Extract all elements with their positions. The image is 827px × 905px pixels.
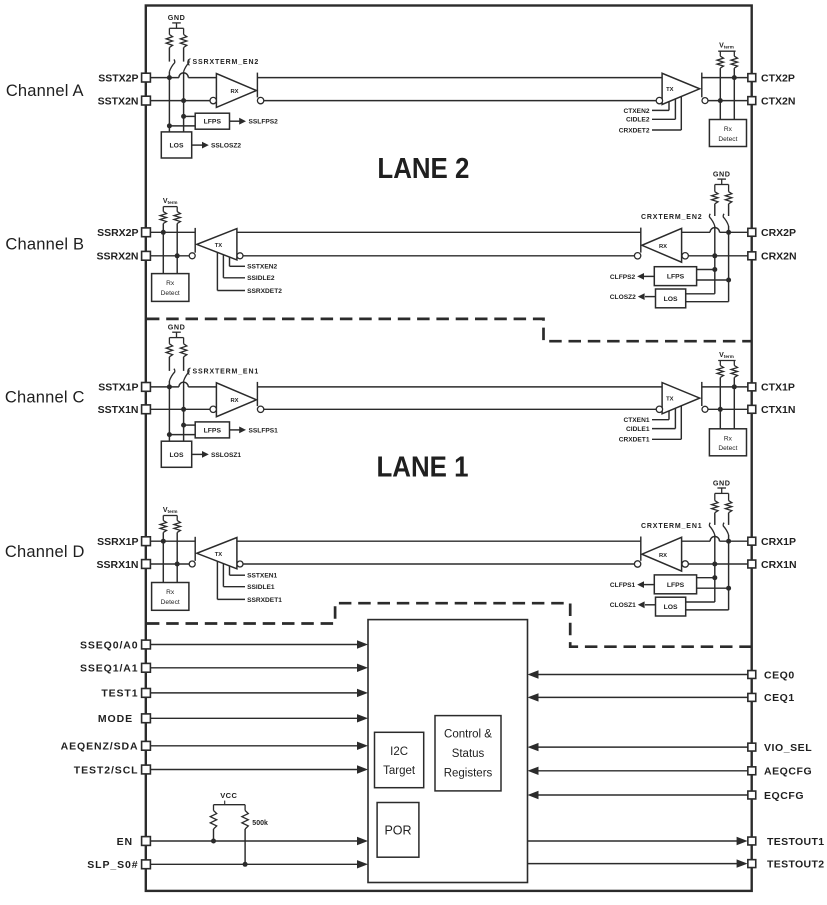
label Channel C bbox=[5, 389, 85, 407]
pin EN bbox=[117, 836, 151, 848]
control label SSRXDET1 bbox=[217, 561, 282, 604]
resistor 500k VCC-SLP_S0# bbox=[242, 805, 248, 865]
svg-text:Detect: Detect bbox=[718, 445, 737, 452]
wire SSTX1N to RX input bubble bbox=[150, 408, 210, 410]
pullup resistor left SSRX2 bbox=[160, 207, 166, 233]
svg-text:CRXTERM_EN2: CRXTERM_EN2 bbox=[641, 214, 702, 221]
svg-text:CLFPS2: CLFPS2 bbox=[610, 274, 636, 281]
RX output bubble ch CRX2 bbox=[634, 253, 640, 259]
TX output stub ch SSRX2 bbox=[194, 228, 196, 253]
RX output stub ch2 bbox=[256, 73, 258, 98]
pin SSTX2P bbox=[98, 72, 150, 84]
svg-text:SSEQ0/A0: SSEQ0/A0 bbox=[80, 639, 139, 651]
input wire MODE bbox=[150, 714, 368, 722]
signal arrow SSLOSZ2 bbox=[192, 142, 242, 150]
pin SSEQ0/A0 bbox=[80, 639, 150, 651]
RX output bubble ch1 bbox=[257, 406, 263, 412]
wire left branch down to LOS bbox=[168, 78, 170, 132]
svg-text:RX: RX bbox=[230, 398, 238, 404]
control label SSTXEN1 bbox=[230, 566, 278, 580]
wire branches to Rx Detect bbox=[163, 232, 177, 273]
svg-text:CLOSZ1: CLOSZ1 bbox=[610, 602, 636, 609]
svg-text:SSTX1P: SSTX1P bbox=[98, 382, 138, 394]
dashed lane separator upper bbox=[147, 319, 751, 341]
input wire AEQENZ/SDA bbox=[150, 742, 368, 750]
POR block bbox=[377, 803, 419, 858]
pin AEQENZ/SDA bbox=[61, 741, 151, 753]
junction dot CRX2P / right branch bbox=[726, 230, 731, 235]
svg-text:Registers: Registers bbox=[444, 767, 493, 779]
control block U1 outline bbox=[368, 620, 528, 883]
LFPS block ch CRX2 bbox=[654, 267, 728, 286]
svg-text:GND: GND bbox=[713, 169, 731, 178]
svg-text:Rx: Rx bbox=[724, 435, 733, 442]
control label SSIDLE1 bbox=[223, 564, 275, 592]
pullup resistor right SSRX1 bbox=[174, 516, 180, 565]
svg-text:Channel B: Channel B bbox=[5, 235, 84, 253]
junction dot right branch / LFPS tap bbox=[726, 278, 731, 283]
pin SSRX1N bbox=[96, 559, 150, 571]
wire CRX1N to RX input bubble bbox=[688, 563, 747, 565]
pullup resistor right CTX2 bbox=[731, 51, 737, 77]
signal arrow SSLFPS1 bbox=[230, 427, 279, 435]
op-amp TX lane 1 bbox=[662, 383, 700, 414]
termination resistor right CRX2 bbox=[725, 185, 731, 217]
junction dot right branch / LFPS tap bbox=[181, 114, 186, 119]
svg-text:Detect: Detect bbox=[161, 290, 180, 297]
junction dot branch right / CTX2P bbox=[732, 75, 737, 80]
label CRXTERM_EN1 bbox=[641, 523, 702, 530]
label 500k bbox=[252, 820, 268, 827]
TX output bubble ch SSRX1 bbox=[189, 561, 195, 567]
svg-text:SSEQ1/A1: SSEQ1/A1 bbox=[80, 663, 139, 675]
op-amp TX lane 1 (driver B/D) bbox=[197, 538, 237, 569]
control label CRXDET1 bbox=[619, 406, 682, 444]
svg-text:Rx: Rx bbox=[166, 280, 175, 287]
svg-text:GND: GND bbox=[713, 478, 731, 487]
svg-text:Control &: Control & bbox=[444, 729, 492, 741]
label CRXTERM_EN2 bbox=[641, 214, 702, 221]
svg-text:CTXEN2: CTXEN2 bbox=[623, 108, 649, 115]
svg-text:SSTX1N: SSTX1N bbox=[98, 404, 139, 416]
junction dot SSTX2P / left branch bbox=[167, 75, 172, 80]
label Channel B bbox=[5, 235, 84, 253]
svg-text:SSRX1P: SSRX1P bbox=[97, 536, 138, 548]
label LANE 1 bbox=[377, 452, 469, 484]
RX output bubble ch CRX1 bbox=[634, 561, 640, 567]
svg-text:TX: TX bbox=[666, 397, 674, 403]
pin CRX2N bbox=[748, 251, 797, 263]
pin SSTX1N bbox=[98, 404, 151, 416]
op-amp RX lane 1 (receiver B/D) bbox=[642, 537, 682, 571]
wire lane2 forward P (SSTX2 to CTX2) bbox=[257, 77, 662, 79]
termination resistor left CRX1 bbox=[712, 493, 718, 525]
switch SSRXTERM right ch1 bbox=[184, 369, 189, 410]
op-amp TX lane 2 (driver B/D) bbox=[197, 229, 237, 260]
junction dot SSTX1N / right branch bbox=[181, 407, 186, 412]
svg-text:SSRX1N: SSRX1N bbox=[96, 559, 138, 571]
I2C Target block bbox=[375, 732, 424, 787]
pin SLP_S0# bbox=[87, 859, 150, 871]
pullup resistor left CTX1 bbox=[717, 361, 723, 410]
pin TESTOUT1 bbox=[748, 836, 825, 848]
wire CRX2P to RX bbox=[682, 228, 748, 233]
output wire TESTOUT1 bbox=[528, 837, 748, 845]
pin SSRX2N bbox=[96, 251, 150, 263]
input wire SLP_S0# bbox=[150, 860, 368, 868]
pin CRX1N bbox=[748, 559, 797, 571]
GND symbol channel SSTX1 bbox=[168, 323, 186, 338]
RX output stub ch CRX1 bbox=[640, 537, 642, 561]
signal arrow CLOSZ2 bbox=[610, 293, 656, 301]
junction dot branch left / CTX2N bbox=[718, 98, 723, 103]
termination resistor right SSTX2N bbox=[180, 28, 186, 61]
wire left branch down to LOS bbox=[168, 387, 170, 441]
svg-text:EN: EN bbox=[117, 836, 133, 848]
TX input bubble ch SSRX1 bbox=[237, 561, 243, 567]
svg-text:LOS: LOS bbox=[170, 143, 184, 150]
input wire EN bbox=[150, 837, 368, 845]
svg-text:Vterm: Vterm bbox=[719, 352, 734, 359]
svg-text:SSRX2P: SSRX2P bbox=[97, 227, 138, 239]
Vterm symbol channel SSRX1 bbox=[163, 507, 178, 516]
svg-text:SSIDLE1: SSIDLE1 bbox=[247, 584, 275, 591]
svg-text:SSTX2P: SSTX2P bbox=[98, 72, 138, 84]
svg-text:VCC: VCC bbox=[220, 791, 237, 800]
junction dot branch right / SSRX1N bbox=[175, 562, 180, 567]
input wire CEQ1 bbox=[528, 693, 748, 701]
wire CTX1N bbox=[708, 408, 748, 410]
control label CIDLE1 bbox=[626, 408, 675, 433]
junction dot branch left / CTX1N bbox=[718, 407, 723, 412]
label Channel D bbox=[5, 543, 85, 561]
junction dot branch right / CTX1P bbox=[732, 384, 737, 389]
svg-text:Channel D: Channel D bbox=[5, 543, 85, 561]
GND symbol channel SSTX2 bbox=[168, 13, 186, 28]
switch SSRXTERM right ch2 bbox=[184, 59, 189, 100]
pin SSTX2N bbox=[98, 95, 151, 107]
svg-text:TEST1: TEST1 bbox=[101, 688, 138, 700]
wire CTX2N bbox=[708, 100, 748, 102]
wire SSTX1P to RX input bbox=[150, 382, 216, 387]
svg-text:CTXEN1: CTXEN1 bbox=[623, 417, 649, 424]
svg-text:GND: GND bbox=[168, 13, 186, 22]
svg-text:RX: RX bbox=[659, 553, 667, 559]
svg-text:POR: POR bbox=[384, 823, 411, 837]
svg-text:AEQENZ/SDA: AEQENZ/SDA bbox=[61, 741, 139, 753]
svg-text:SSTX2N: SSTX2N bbox=[98, 95, 139, 107]
wire right branch down to LOS bbox=[183, 101, 185, 132]
svg-text:SSLFPS1: SSLFPS1 bbox=[249, 427, 279, 434]
junction dot branch right / SSRX2N bbox=[175, 253, 180, 258]
pin EQCFG bbox=[748, 790, 804, 802]
pin CRX1P bbox=[748, 536, 796, 548]
junction dot SSTX1P / left branch bbox=[167, 384, 172, 389]
svg-text:RX: RX bbox=[230, 89, 238, 95]
Vterm symbol channel CTX1 bbox=[718, 352, 735, 361]
svg-text:CLOSZ2: CLOSZ2 bbox=[610, 294, 636, 301]
Rx Detect block ch SSRX2 bbox=[152, 274, 189, 302]
control label SSRXDET2 bbox=[217, 252, 282, 295]
label SSRXTERM_EN1 bbox=[188, 368, 259, 376]
RX input bubble ch CRX1 bbox=[682, 561, 688, 567]
svg-text:LANE 2: LANE 2 bbox=[377, 153, 469, 185]
svg-text:CTX1P: CTX1P bbox=[761, 382, 795, 394]
Rx Detect block ch CTX2 bbox=[709, 120, 746, 147]
LOS block ch CRX1 bbox=[656, 597, 686, 616]
pin SSEQ1/A1 bbox=[80, 663, 150, 675]
svg-text:TESTOUT2: TESTOUT2 bbox=[767, 858, 824, 870]
termination resistor right CRX1 bbox=[725, 493, 731, 525]
switch CRXTERM left ch2 bbox=[709, 214, 714, 256]
TX output stub ch2 bbox=[701, 73, 703, 98]
pin MODE bbox=[98, 713, 151, 725]
junction dot SLP_S0# pulldown bbox=[243, 862, 248, 867]
switch CRXTERM right ch1 bbox=[723, 523, 728, 542]
svg-text:SLP_S0#: SLP_S0# bbox=[87, 859, 138, 871]
junction dot left branch / LFPS tap bbox=[167, 432, 172, 437]
pullup resistor left CTX2 bbox=[717, 51, 723, 100]
signal arrow CLFPS2 bbox=[610, 273, 654, 281]
svg-text:CIDLE2: CIDLE2 bbox=[626, 117, 650, 124]
signal arrow CLFPS1 bbox=[610, 581, 654, 589]
svg-text:GND: GND bbox=[168, 323, 186, 332]
wire SSTX2N to RX input bubble bbox=[150, 100, 210, 102]
svg-text:RX: RX bbox=[659, 244, 667, 250]
signal arrow CLOSZ1 bbox=[610, 601, 656, 609]
pin SSRX2P bbox=[97, 227, 150, 239]
RX output stub ch1 bbox=[256, 382, 258, 406]
svg-text:SSLOSZ1: SSLOSZ1 bbox=[211, 452, 241, 459]
svg-text:Channel A: Channel A bbox=[6, 82, 84, 100]
LFPS block ch SSTX1 bbox=[195, 422, 229, 438]
termination resistor left SSTX1P bbox=[166, 338, 172, 371]
pin TEST1 bbox=[101, 688, 150, 700]
pin CEQ0 bbox=[748, 669, 795, 681]
input wire AEQCFG bbox=[528, 767, 748, 775]
wire right branch down to LOS bbox=[686, 232, 729, 301]
output wire TESTOUT2 bbox=[528, 859, 748, 867]
svg-text:CRX2N: CRX2N bbox=[761, 251, 797, 263]
RX input bubble ch CRX2 bbox=[682, 253, 688, 259]
svg-text:Rx: Rx bbox=[724, 126, 733, 133]
svg-text:SSRXTERM_EN2: SSRXTERM_EN2 bbox=[193, 59, 260, 66]
wire LFPS tap lower bbox=[169, 434, 195, 436]
junction dot right branch / LFPS tap bbox=[726, 586, 731, 591]
signal arrow SSLOSZ1 bbox=[192, 451, 242, 459]
VCC symbol bbox=[214, 791, 246, 805]
svg-text:CRX1N: CRX1N bbox=[761, 559, 797, 571]
TX input bubble ch SSRX2 bbox=[237, 253, 243, 259]
wire SSRX1P from TX output bbox=[150, 540, 195, 542]
resistor VCC-EN bbox=[210, 805, 216, 841]
TX input bubble ch1 bbox=[656, 406, 662, 412]
signal arrow SSLFPS2 bbox=[230, 118, 279, 126]
junction dot left branch / LFPS tap bbox=[712, 575, 717, 580]
control label CRXDET2 bbox=[619, 97, 682, 135]
svg-text:SSRXDET1: SSRXDET1 bbox=[247, 597, 282, 604]
control label CIDLE2 bbox=[626, 99, 675, 124]
Rx Detect block ch SSRX1 bbox=[152, 583, 189, 611]
RX output stub ch CRX2 bbox=[640, 228, 642, 253]
op-amp RX lane 2 bbox=[216, 74, 256, 108]
wire lane2 return N bbox=[243, 255, 634, 257]
svg-text:Vterm: Vterm bbox=[163, 198, 178, 205]
pin CTX1N bbox=[748, 404, 796, 416]
svg-text:CRXTERM_EN1: CRXTERM_EN1 bbox=[641, 523, 702, 530]
svg-text:Status: Status bbox=[452, 748, 485, 760]
op-amp RX lane 2 (receiver B/D) bbox=[642, 228, 682, 262]
svg-text:TX: TX bbox=[666, 87, 674, 93]
pin TESTOUT2 bbox=[748, 858, 825, 870]
svg-text:SSTXEN2: SSTXEN2 bbox=[247, 264, 277, 271]
wire branches to Rx Detect bbox=[720, 78, 734, 120]
svg-text:CIDLE1: CIDLE1 bbox=[626, 426, 650, 433]
svg-text:TX: TX bbox=[215, 552, 223, 558]
termination resistor right SSTX1N bbox=[180, 338, 186, 371]
wire lane1 return P (CRX1 to SSRX1) bbox=[237, 540, 641, 542]
wire LFPS tap lower bbox=[169, 125, 195, 127]
svg-text:Rx: Rx bbox=[166, 589, 175, 596]
op-amp RX lane 1 bbox=[216, 383, 256, 417]
svg-text:SSIDLE2: SSIDLE2 bbox=[247, 275, 275, 282]
svg-text:SSRXTERM_EN1: SSRXTERM_EN1 bbox=[193, 369, 260, 376]
wire SSRX1N from TX output bubble bbox=[150, 563, 189, 565]
svg-text:Target: Target bbox=[383, 765, 416, 777]
pin VIO_SEL bbox=[748, 742, 812, 754]
svg-text:CTX2P: CTX2P bbox=[761, 72, 795, 84]
svg-text:CEQ1: CEQ1 bbox=[764, 692, 795, 704]
wire SSRX2N from TX output bubble bbox=[150, 255, 189, 257]
pullup resistor left SSRX1 bbox=[160, 516, 166, 542]
label Channel A bbox=[6, 82, 84, 100]
svg-text:CRXDET2: CRXDET2 bbox=[619, 127, 650, 134]
pin SSRX1P bbox=[97, 536, 150, 548]
wire SSRX2P from TX output bbox=[150, 231, 195, 233]
pin CTX2N bbox=[748, 95, 796, 107]
TX output stub ch SSRX1 bbox=[194, 537, 196, 561]
wire lane1 return N bbox=[243, 563, 634, 565]
wire branches to Rx Detect bbox=[720, 387, 734, 429]
wire lane1 forward P (SSTX1 to CTX1) bbox=[257, 386, 662, 388]
pin AEQCFG bbox=[748, 766, 812, 778]
Vterm symbol channel CTX2 bbox=[718, 43, 735, 52]
wire CRX1P to RX bbox=[682, 537, 748, 542]
input wire TEST1 bbox=[150, 689, 368, 697]
input wire SSEQ0/A0 bbox=[150, 640, 368, 648]
wire CRX2N to RX input bubble bbox=[688, 255, 747, 257]
junction dot left branch / LFPS tap bbox=[167, 123, 172, 128]
svg-text:SSRX2N: SSRX2N bbox=[96, 251, 138, 263]
label SSRXTERM_EN2 bbox=[188, 59, 259, 67]
svg-text:CRX1P: CRX1P bbox=[761, 536, 796, 548]
svg-text:LANE 1: LANE 1 bbox=[377, 452, 469, 484]
LOS block ch SSTX1 bbox=[161, 441, 191, 467]
input wire CEQ0 bbox=[528, 670, 748, 678]
RX input bubble ch1 bbox=[210, 406, 216, 412]
switch SSRXTERM left ch1 bbox=[169, 369, 174, 387]
svg-text:Channel C: Channel C bbox=[5, 389, 85, 407]
svg-text:500k: 500k bbox=[252, 820, 268, 827]
termination resistor left SSTX2P bbox=[166, 28, 172, 61]
svg-text:LFPS: LFPS bbox=[667, 582, 685, 589]
svg-text:I2C: I2C bbox=[390, 746, 408, 758]
op-amp TX lane 2 bbox=[662, 73, 700, 104]
svg-text:LOS: LOS bbox=[664, 296, 678, 303]
junction dot CRX1P / right branch bbox=[726, 539, 731, 544]
svg-text:EQCFG: EQCFG bbox=[764, 790, 804, 802]
svg-text:TEST2/SCL: TEST2/SCL bbox=[74, 764, 139, 776]
switch CRXTERM right ch2 bbox=[723, 214, 728, 233]
svg-text:LFPS: LFPS bbox=[667, 274, 685, 281]
switch CRXTERM left ch1 bbox=[709, 523, 714, 564]
svg-text:SSLFPS2: SSLFPS2 bbox=[249, 119, 279, 126]
wire SSTX2P to RX input bbox=[150, 73, 216, 78]
TX output bubble ch SSRX2 bbox=[189, 253, 195, 259]
GND symbol channel CRX2 bbox=[713, 169, 731, 184]
LOS block ch SSTX2 bbox=[161, 132, 191, 158]
Vterm symbol channel SSRX2 bbox=[163, 198, 178, 207]
input wire SSEQ1/A1 bbox=[150, 664, 368, 672]
LOS block ch CRX2 bbox=[656, 289, 686, 308]
svg-text:SSTXEN1: SSTXEN1 bbox=[247, 573, 277, 580]
pin SSTX1P bbox=[98, 382, 150, 394]
svg-text:CRX2P: CRX2P bbox=[761, 227, 796, 239]
switch SSRXTERM left ch2 bbox=[169, 59, 174, 77]
svg-text:Detect: Detect bbox=[161, 599, 180, 606]
junction dot right branch / LFPS tap bbox=[181, 423, 186, 428]
wire lane2 return P (CRX2 to SSRX2) bbox=[237, 231, 641, 233]
Control and Status Registers block bbox=[435, 716, 501, 791]
pullup resistor right CTX1 bbox=[731, 361, 737, 387]
LFPS block ch SSTX2 bbox=[195, 113, 229, 129]
svg-text:LFPS: LFPS bbox=[204, 427, 222, 434]
dashed lane separator lower bbox=[147, 603, 751, 647]
svg-text:CRXDET1: CRXDET1 bbox=[619, 437, 650, 444]
junction dot branch left / SSRX1P bbox=[161, 539, 166, 544]
wire lane2 forward N bbox=[264, 100, 656, 102]
pin CTX1P bbox=[748, 382, 795, 394]
svg-text:SSRXDET2: SSRXDET2 bbox=[247, 288, 282, 295]
control label SSIDLE2 bbox=[223, 255, 275, 283]
pullup resistor right SSRX2 bbox=[174, 207, 180, 256]
pin CEQ1 bbox=[748, 692, 795, 704]
control label SSTXEN2 bbox=[230, 257, 278, 271]
junction dot branch left / SSRX2P bbox=[161, 230, 166, 235]
LFPS block ch CRX1 bbox=[654, 575, 728, 594]
pin TEST2/SCL bbox=[74, 764, 151, 776]
wire lane1 forward N bbox=[264, 408, 656, 410]
svg-text:LFPS: LFPS bbox=[204, 119, 222, 126]
termination resistor left CRX2 bbox=[712, 185, 718, 217]
wire right branch down to LOS bbox=[686, 541, 729, 610]
chip boundary rectangle bbox=[146, 6, 752, 891]
Rx Detect block ch CTX1 bbox=[709, 429, 746, 456]
RX input bubble ch2 bbox=[210, 97, 216, 103]
control label CTXEN1 bbox=[623, 411, 669, 424]
GND symbol channel CRX1 bbox=[713, 478, 731, 493]
svg-text:SSLOSZ2: SSLOSZ2 bbox=[211, 143, 241, 150]
junction dot SSTX2N / right branch bbox=[181, 98, 186, 103]
svg-text:TESTOUT1: TESTOUT1 bbox=[767, 836, 824, 848]
TX output bubble ch1 bbox=[702, 406, 708, 412]
wire LFPS tap upper bbox=[184, 424, 196, 426]
wire branches to Rx Detect bbox=[163, 541, 177, 582]
input wire VIO_SEL bbox=[528, 743, 748, 751]
svg-text:TX: TX bbox=[215, 243, 223, 249]
RX output bubble ch2 bbox=[257, 97, 263, 103]
svg-text:CLFPS1: CLFPS1 bbox=[610, 582, 636, 589]
